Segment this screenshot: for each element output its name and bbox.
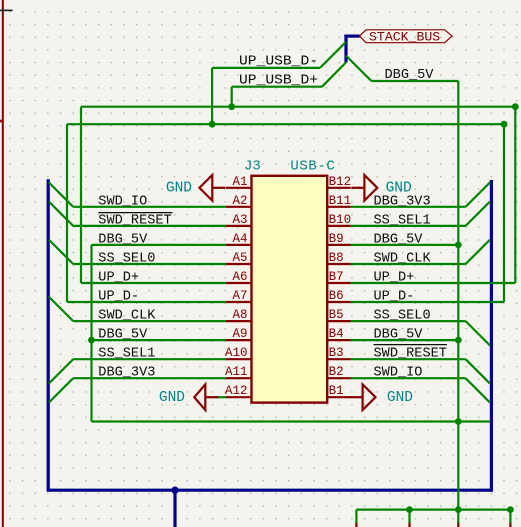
pin of off-screen connector at x=409.5 xyxy=(408,523,410,527)
svg-text:GND: GND xyxy=(166,181,192,197)
wire UP_D+ top horizontal xyxy=(81,106,515,108)
wire from pin B10 xyxy=(351,225,466,227)
junction UP_D+ / UP_USB_D+ (232,107) xyxy=(228,103,235,110)
power symbol GND pin at B12 xyxy=(351,187,364,189)
wire from pin B2 xyxy=(351,377,466,379)
svg-text:A12: A12 xyxy=(225,384,248,398)
svg-text:DBG_3V3: DBG_3V3 xyxy=(374,194,431,209)
pin B8 xyxy=(327,263,351,265)
wire stub down at x=510 xyxy=(509,510,511,523)
bus entry B10 xyxy=(466,202,490,226)
junction UP_D+ corner (515,107) xyxy=(512,103,519,110)
wire from pin B3 xyxy=(351,358,466,360)
wire from pin B7 xyxy=(351,282,516,284)
svg-text:A7: A7 xyxy=(232,289,247,303)
junction UP_D- / UP_USB_D- (212,124) xyxy=(209,121,216,128)
wire from pin B11 xyxy=(351,206,466,208)
pin A11 xyxy=(226,377,252,379)
pin B9 xyxy=(327,244,351,246)
svg-text:A10: A10 xyxy=(225,346,248,360)
bus entry B8 xyxy=(466,240,490,264)
svg-text:DBG_5V: DBG_5V xyxy=(374,232,424,247)
wire to pin A4 xyxy=(92,244,226,246)
svg-text:A3: A3 xyxy=(232,213,247,227)
pin A10 xyxy=(226,358,252,360)
sheet border tick (left, y=121) xyxy=(0,120,4,123)
net label SWD_RESET overline (A3) xyxy=(98,212,172,214)
svg-text:A9: A9 xyxy=(232,327,247,341)
pin A9 xyxy=(226,339,252,341)
svg-text:B6: B6 xyxy=(329,289,344,303)
svg-text:B5: B5 xyxy=(329,308,344,322)
svg-text:A1: A1 xyxy=(232,175,247,189)
svg-text:DBG_5V: DBG_5V xyxy=(374,328,424,343)
connector J3 body xyxy=(252,176,328,403)
bus entry UP_USB_D- xyxy=(320,42,346,68)
pin B10 xyxy=(327,225,351,227)
svg-text:SS_SEL1: SS_SEL1 xyxy=(98,347,155,362)
wire from pin B4 xyxy=(351,339,459,341)
wire UP_D+ left vertical xyxy=(80,107,82,283)
pin A1 xyxy=(226,187,252,189)
svg-text:B7: B7 xyxy=(329,270,344,284)
power symbol GND pin at B1 xyxy=(350,396,363,398)
wire to pin A5 xyxy=(73,263,226,265)
bus entry A3 xyxy=(49,202,73,226)
svg-text:B12: B12 xyxy=(329,175,352,189)
wire to pin A12 xyxy=(218,396,226,398)
wire DBG_5V top horizontal xyxy=(371,80,458,82)
wire DBG_5V vertical (right, long) xyxy=(457,81,459,510)
svg-text:A4: A4 xyxy=(232,232,247,246)
svg-text:B1: B1 xyxy=(329,384,344,398)
net label SWD_RESET overline (B3) xyxy=(374,344,448,346)
pin B7 xyxy=(327,282,351,284)
svg-text:A6: A6 xyxy=(232,270,247,284)
junction DBG_5V at A9 (91,341) xyxy=(88,337,95,344)
svg-text:SS_SEL1: SS_SEL1 xyxy=(374,213,431,228)
bus branch down at x=175 xyxy=(173,490,176,527)
svg-text:SS_SEL0: SS_SEL0 xyxy=(374,309,431,324)
svg-text:GND: GND xyxy=(387,390,413,406)
wire stub down at x=409 xyxy=(408,510,410,523)
wire UP_D- left vertical xyxy=(66,124,68,302)
svg-text:UP_D-: UP_D- xyxy=(374,290,415,305)
bus entry A11 xyxy=(49,378,73,402)
svg-text:B9: B9 xyxy=(329,232,344,246)
bus entry B11 xyxy=(466,182,490,206)
wire UP_D- right vertical xyxy=(503,124,505,302)
junction UP_D- corner (504,124) xyxy=(501,121,508,128)
wire from pin B6 xyxy=(351,301,504,303)
svg-text:DBG_5V: DBG_5V xyxy=(98,232,148,247)
hierarchical label STACK_BUS outline xyxy=(360,30,452,43)
svg-text:USB-C: USB-C xyxy=(290,158,335,174)
pin B3 xyxy=(327,358,351,360)
bus right vertical xyxy=(490,180,493,492)
power symbol GND arrow at A12 xyxy=(194,384,205,410)
svg-text:B10: B10 xyxy=(329,213,352,227)
svg-text:B11: B11 xyxy=(329,194,352,208)
pin A6 xyxy=(226,282,252,284)
wire to pin A6 xyxy=(81,282,226,284)
wire UP_USB_D+ horizontal xyxy=(232,86,322,88)
svg-text:UP_D+: UP_D+ xyxy=(374,271,415,286)
svg-text:B3: B3 xyxy=(329,346,344,360)
bus entry A10 xyxy=(49,359,73,383)
svg-text:DBG_3V3: DBG_3V3 xyxy=(98,366,155,381)
svg-text:B2: B2 xyxy=(329,365,344,379)
wire DBG_5V lower horizontal xyxy=(356,509,510,511)
bus entry DBG_5V (top) xyxy=(346,56,371,81)
svg-text:SWD_CLK: SWD_CLK xyxy=(374,252,432,267)
svg-text:UP_D+: UP_D+ xyxy=(98,271,139,286)
power symbol GND arrow at B12 xyxy=(364,175,377,201)
pin B12 xyxy=(327,187,351,189)
bus junction (175,490) xyxy=(171,487,178,494)
wire to pin A11 xyxy=(73,377,226,379)
svg-text:STACK_BUS: STACK_BUS xyxy=(369,29,440,44)
junction DBG_5V bottom (458,421) xyxy=(455,418,462,425)
svg-text:A8: A8 xyxy=(232,308,247,322)
bus bottom horizontal xyxy=(47,489,492,492)
power symbol GND arrow at B1 xyxy=(363,384,376,410)
pin of off-screen connector at x=458.3 xyxy=(457,523,459,527)
junction DBG_5V at B4 (458,341) xyxy=(455,337,462,344)
junction (510,510) xyxy=(507,506,514,513)
svg-text:SWD_IO: SWD_IO xyxy=(98,194,147,209)
sheet border tick (top-left) xyxy=(0,9,13,11)
wire to pin A8 xyxy=(73,320,226,322)
pin B2 xyxy=(327,377,351,379)
bus entry B2 xyxy=(466,378,490,402)
pin A4 xyxy=(226,244,252,246)
svg-text:J3: J3 xyxy=(244,158,261,174)
wire to pin A10 xyxy=(73,358,226,360)
pin B4 xyxy=(327,339,351,341)
junction DBG_5V at B9 (458,244) xyxy=(455,242,462,249)
wire UP_USB_D- vertical xyxy=(211,68,213,124)
junction (458,510) xyxy=(455,506,462,513)
wire from pin B8 xyxy=(351,263,466,265)
bus entry UP_USB_D+ xyxy=(322,62,346,86)
wire UP_D+ right vertical xyxy=(514,107,516,283)
power symbol GND pin at A1 xyxy=(212,187,225,189)
svg-text:UP_D-: UP_D- xyxy=(98,290,139,305)
pin A7 xyxy=(226,301,252,303)
pin A8 xyxy=(226,320,252,322)
wire stub down at x=458 xyxy=(457,510,459,523)
bus entry B5 xyxy=(466,321,490,345)
pin of off-screen connector at x=356.4 xyxy=(355,523,357,527)
wire stub down at x=356 xyxy=(355,510,357,523)
power symbol GND arrow at A1 xyxy=(199,175,212,201)
bus entry A5 xyxy=(49,240,73,264)
junction (409,510) xyxy=(406,506,413,513)
pin B5 xyxy=(327,320,351,322)
svg-text:A11: A11 xyxy=(225,365,248,379)
wire to pin A7 xyxy=(67,301,226,303)
pin B6 xyxy=(327,301,351,303)
pin B11 xyxy=(327,206,351,208)
svg-text:B4: B4 xyxy=(329,327,344,341)
svg-text:SWD_IO: SWD_IO xyxy=(374,366,423,381)
svg-text:DBG_5V: DBG_5V xyxy=(98,328,148,343)
bus left vertical xyxy=(47,179,50,490)
svg-text:SWD_RESET: SWD_RESET xyxy=(98,213,171,228)
svg-text:SWD_RESET: SWD_RESET xyxy=(374,347,447,362)
bus STACK_BUS stub vertical xyxy=(344,35,347,63)
svg-text:A2: A2 xyxy=(232,194,247,208)
wire from pin B5 xyxy=(351,320,466,322)
pin A12 xyxy=(226,396,252,398)
wire DBG_5V left vertical xyxy=(90,245,92,422)
sheet border (left page edge) xyxy=(2,0,4,527)
bus entry B3 xyxy=(466,359,490,383)
wire UP_USB_D- horizontal xyxy=(212,67,320,69)
pin B1 xyxy=(327,396,351,398)
pin A3 xyxy=(226,225,252,227)
wire UP_USB_D+ vertical xyxy=(231,87,233,107)
pin A2 xyxy=(226,206,252,208)
svg-text:SWD_CLK: SWD_CLK xyxy=(98,309,156,324)
svg-text:SS_SEL0: SS_SEL0 xyxy=(98,252,155,267)
wire UP_D- top horizontal xyxy=(67,123,504,125)
power symbol GND pin at A12 xyxy=(205,396,218,398)
pin A5 xyxy=(226,263,252,265)
wire DBG_5V bottom horizontal xyxy=(92,420,491,422)
wire to pin A3 xyxy=(73,225,226,227)
svg-text:B8: B8 xyxy=(329,251,344,265)
wire to pin A9 xyxy=(92,339,226,341)
svg-text:GND: GND xyxy=(159,390,185,406)
wire from pin B9 xyxy=(351,244,459,246)
wire to pin A2 xyxy=(73,206,226,208)
bus entry A8 xyxy=(49,297,73,321)
svg-text:A5: A5 xyxy=(232,251,247,265)
bus STACK_BUS stub horizontal to label xyxy=(344,34,359,37)
pin of off-screen connector at x=510.4 xyxy=(509,523,511,527)
bus entry A2 xyxy=(49,182,73,206)
